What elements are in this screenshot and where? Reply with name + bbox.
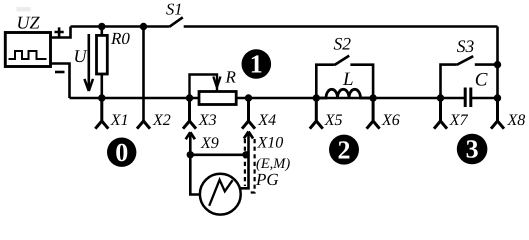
square-wave source UZ box [5,33,50,67]
potentiometer wiper arrow [190,75,218,97]
terminal X9 arrow [189,133,192,155]
svg-text:S1: S1 [166,0,183,19]
numbered node 2 [329,135,359,165]
node: R0 top junction [98,23,105,30]
minus polarity mark [55,71,65,74]
terminal X2 fork [137,121,150,129]
svg-text:X8: X8 [507,112,526,129]
node: top rail X2 junction [140,23,147,30]
wire: X9-X10 link [190,154,248,157]
node: X4 junction [245,94,252,101]
arrow: voltage U direction [88,34,91,90]
node: X10 link junction [242,151,249,158]
svg-text:2: 2 [338,135,351,164]
switch S3 blade [457,56,474,65]
switch S1 blade [169,17,183,27]
svg-text:X4: X4 [257,112,276,129]
svg-text:X3: X3 [198,112,217,129]
terminal X6 [367,98,380,129]
svg-text:R0: R0 [110,29,130,48]
svg-text:1: 1 [250,50,263,79]
svg-text:U: U [74,46,88,66]
wire: R0 top lead [101,27,104,36]
node: R0 bottom junction (X1) [98,94,105,101]
svg-text:X10: X10 [257,135,284,152]
svg-text:R: R [225,68,237,87]
wire: X10 down to generator right side [240,155,248,189]
svg-text:L: L [342,69,354,90]
capacitor C right plate [469,88,472,108]
node: X7 junction [437,94,444,101]
svg-text:C: C [475,70,488,91]
faint smudge above UZ [17,7,31,12]
terminal X3 [183,98,196,129]
svg-text:X1: X1 [110,112,129,129]
node: X6 junction [369,94,376,101]
switch S3 branch left vertical [441,65,457,98]
wire: link down to generator left side [190,155,200,195]
wire: R0 bottom lead [101,74,104,98]
capacitor C left plate [464,88,467,108]
svg-text:X6: X6 [381,112,400,129]
terminal X1 [95,98,108,129]
node: X5 junction [313,94,320,101]
node: X9 link junction [187,151,194,158]
dashed module boundary left segment [244,139,246,186]
svg-text:X7: X7 [449,112,469,129]
svg-text:X9: X9 [200,135,219,152]
svg-text:S2: S2 [334,33,352,53]
inductor L coil [316,89,373,98]
numbered node 1 [241,49,271,79]
wire: bottom rail left of capacitor [70,97,466,100]
svg-text:UZ: UZ [17,13,41,33]
node: X8 junction [494,94,501,101]
square-wave symbol inside UZ [9,51,47,59]
wire: top rail left segment [71,25,170,28]
wire: top rail right segment [184,25,498,28]
wire: X2 branch from top rail to terminal [142,27,145,122]
wire: source + terminal to top rail [51,27,71,38]
node: S3 right junction on vertical drop [494,61,501,68]
potentiometer R body [199,92,236,105]
terminal X8 [491,98,504,129]
terminal X4 [242,98,255,129]
svg-text:3: 3 [466,135,479,164]
node: X3 junction [186,94,193,101]
terminal X10 arrow [247,132,250,155]
wire: bottom rail right of capacitor [471,97,498,100]
switch S2 branch left vertical [316,65,334,98]
switch S3 branch right side [475,63,498,66]
svg-text:X2: X2 [152,112,171,129]
svg-text:PG: PG [255,170,279,189]
dashed module boundary right segment [248,139,255,193]
plus polarity mark [55,27,64,36]
terminal X7 [434,98,447,129]
resistor R0 body [97,35,108,74]
wire: right-hand vertical drop to X8 [496,27,499,99]
svg-text:S3: S3 [457,36,475,56]
generator waveform symbol [209,180,232,206]
numbered node 0 [107,138,136,167]
svg-text:0: 0 [115,138,128,167]
generator PG circle [200,174,241,215]
numbered node 3 [457,134,488,165]
svg-text:X5: X5 [324,112,343,129]
switch S2 branch right side [350,65,373,98]
switch S2 blade [335,56,350,65]
wire: source - terminal down to bottom rail [51,64,70,99]
terminal X5 [310,98,323,129]
